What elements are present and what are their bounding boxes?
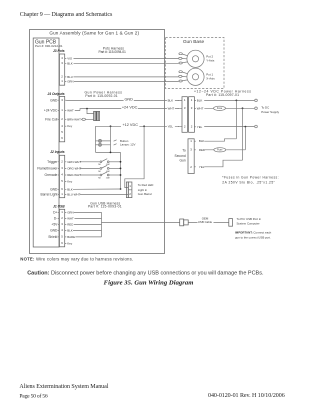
svg-text:BLK: BLK: [199, 139, 205, 143]
svg-text:2: 2: [61, 216, 63, 220]
svg-text:Part #: 115-0092-01: Part #: 115-0092-01: [85, 94, 117, 98]
svg-text:Part #: 115-0094-01: Part #: 115-0094-01: [98, 50, 126, 54]
svg-text:Shield: Shield: [48, 235, 57, 239]
svg-text:Fuse: Fuse: [217, 149, 223, 152]
svg-text:NO: NO: [98, 171, 101, 173]
svg-text:040-0120-01 Rev. H 10/10/200: 040-0120-01 Rev. H 10/10/2006: [208, 393, 285, 399]
svg-text:BLK: BLK: [67, 187, 73, 191]
svg-text:+5V: +5V: [51, 223, 58, 227]
svg-text:To PC/ USB Port in: To PC/ USB Port in: [237, 217, 262, 221]
svg-text:YEL: YEL: [197, 125, 203, 129]
svg-text:BRN-WHT: BRN-WHT: [67, 117, 81, 121]
svg-text:Power Supply: Power Supply: [261, 110, 279, 114]
svg-text:RED: RED: [67, 222, 73, 226]
svg-text:ORG-WHT: ORG-WHT: [67, 166, 81, 170]
svg-text:NO: NO: [98, 177, 101, 179]
svg-text:2: 2: [61, 117, 63, 121]
svg-text:4: 4: [61, 124, 63, 128]
svg-text:NOTE: Wire colors may vary du: NOTE: Wire colors may vary due to harnes…: [20, 256, 133, 261]
svg-text:BLK: BLK: [67, 61, 73, 65]
svg-text:GND: GND: [124, 98, 133, 102]
svg-text:Key: Key: [67, 124, 73, 128]
svg-text:2A 250V Slo Blo, .25"x1.25": 2A 250V Slo Blo, .25"x1.25": [222, 180, 275, 184]
svg-text:Second: Second: [175, 154, 186, 158]
svg-text:3: 3: [61, 98, 63, 102]
svg-text:Part #: 990-0212-01: Part #: 990-0212-01: [35, 44, 63, 48]
svg-text:Gun Barrel: Gun Barrel: [138, 192, 152, 196]
svg-text:D-: D-: [54, 217, 57, 221]
svg-text:Key: Key: [67, 242, 73, 246]
svg-text:Part #: 115-0097-01: Part #: 115-0097-01: [206, 93, 239, 97]
svg-text:BLU-WHT: BLU-WHT: [67, 193, 80, 197]
svg-text:2: 2: [61, 75, 63, 79]
svg-text:3: 3: [61, 166, 63, 170]
svg-text:BLK: BLK: [197, 98, 203, 102]
svg-text:2: 2: [191, 124, 193, 128]
svg-text:RED: RED: [199, 148, 205, 152]
svg-text:X-Axis: X-Axis: [206, 77, 215, 81]
svg-text:Trigger: Trigger: [47, 160, 58, 164]
svg-text:J3 Pots: J3 Pots: [53, 49, 65, 53]
svg-text:*Fuses in Gun Power Harness:: *Fuses in Gun Power Harness:: [222, 175, 278, 179]
svg-text:1: 1: [129, 184, 131, 188]
svg-text:BLK: BLK: [67, 228, 73, 232]
svg-text:4: 4: [61, 173, 63, 177]
svg-text:IMPORTANT: Connect each: IMPORTANT: Connect each: [235, 231, 272, 235]
svg-text:5: 5: [61, 235, 63, 239]
svg-text:4: 4: [61, 56, 63, 60]
svg-text:2: 2: [190, 165, 192, 169]
svg-text:1: 1: [191, 98, 193, 102]
svg-text:1: 1: [61, 108, 63, 112]
svg-text:1: 1: [61, 79, 63, 83]
svg-text:2: 2: [129, 192, 131, 196]
svg-text:WHT: WHT: [67, 109, 74, 113]
svg-text:GRN: GRN: [67, 80, 73, 84]
svg-text:GND: GND: [50, 187, 58, 191]
svg-text:1: 1: [61, 210, 63, 214]
svg-text:Fuse: Fuse: [217, 107, 223, 110]
svg-text:To Red LED: To Red LED: [138, 183, 154, 187]
svg-text:Lamps: 12V: Lamps: 12V: [120, 143, 135, 147]
svg-text:6: 6: [61, 241, 63, 245]
svg-text:3: 3: [191, 106, 193, 110]
svg-text:Barrel Light: Barrel Light: [41, 193, 58, 197]
svg-text:4: 4: [61, 228, 63, 232]
svg-text:Key: Key: [67, 179, 73, 183]
svg-text:Caution: Disconnect power bef: Caution: Disconnect power before changin…: [27, 270, 264, 276]
svg-text:Flamethrower: Flamethrower: [37, 167, 58, 171]
svg-text:Fire Coil: Fire Coil: [45, 117, 58, 121]
svg-text:GRN-WHT: GRN-WHT: [67, 160, 81, 164]
svg-text:YEL: YEL: [168, 125, 174, 129]
svg-text:WHT: WHT: [168, 107, 175, 111]
svg-text:NO: NO: [98, 164, 101, 166]
svg-text:To DC: To DC: [261, 105, 269, 109]
svg-text:J2 Inputs: J2 Inputs: [50, 150, 65, 154]
svg-text:3: 3: [190, 148, 192, 152]
svg-text:2: 2: [184, 124, 186, 128]
svg-text:Grenade: Grenade: [45, 173, 58, 177]
svg-text:Gun: Gun: [179, 158, 185, 162]
svg-text:Chapter 9 — Diagrams and Sch: Chapter 9 — Diagrams and Schematics: [20, 12, 113, 18]
svg-text:+24 VDC: +24 VDC: [122, 106, 138, 110]
svg-text:Page 50 of 56: Page 50 of 56: [19, 392, 48, 399]
svg-text:Gun Assembly (Same for Gun 1 &: Gun Assembly (Same for Gun 1 & Gun 2): [49, 30, 139, 35]
svg-text:WHT: WHT: [67, 216, 74, 220]
svg-text:USB Cable: USB Cable: [198, 220, 213, 224]
svg-text:10M: 10M: [106, 171, 110, 173]
svg-text:To: To: [182, 148, 186, 152]
svg-text:Aliens Extermination System Ma: Aliens Extermination System Manual: [19, 384, 108, 390]
svg-text:Part #: 115-0093-01: Part #: 115-0093-01: [88, 205, 122, 209]
svg-text:+24 VDC: +24 VDC: [44, 109, 58, 113]
svg-text:10M: 10M: [106, 164, 110, 166]
svg-text:Y-Axis: Y-Axis: [206, 59, 215, 63]
svg-text:10M: 10M: [106, 177, 110, 179]
svg-text:D+: D+: [53, 211, 57, 215]
svg-text:Gun Base: Gun Base: [183, 39, 205, 45]
svg-text:6: 6: [61, 136, 63, 140]
svg-text:GND: GND: [50, 98, 58, 102]
svg-text:J4 Outputs: J4 Outputs: [47, 92, 64, 96]
svg-text:gun to the correct USB port.: gun to the correct USB port.: [235, 235, 271, 239]
svg-text:VIO: VIO: [67, 57, 73, 61]
svg-text:BARE: BARE: [67, 235, 75, 239]
svg-text:+12 VDC: +12 VDC: [122, 123, 138, 127]
svg-text:5: 5: [61, 179, 63, 183]
svg-text:3: 3: [61, 222, 63, 226]
svg-text:YEL: YEL: [199, 165, 205, 169]
svg-text:System Computer: System Computer: [237, 222, 260, 226]
svg-text:3: 3: [184, 106, 186, 110]
svg-text:J1 USB: J1 USB: [53, 205, 65, 209]
svg-text:WHT: WHT: [197, 106, 204, 110]
svg-text:BLK: BLK: [168, 98, 174, 102]
svg-text:RED-WHT: RED-WHT: [67, 173, 81, 177]
svg-text:5: 5: [61, 130, 63, 134]
svg-text:BLU: BLU: [67, 75, 73, 79]
svg-text:6: 6: [61, 187, 63, 191]
svg-text:1: 1: [190, 139, 192, 143]
svg-text:3: 3: [61, 61, 63, 65]
svg-text:Figure 35. Gun Wiring Diagra: Figure 35. Gun Wiring Diagram: [104, 279, 194, 286]
svg-text:1: 1: [184, 98, 186, 102]
svg-text:1: 1: [61, 192, 63, 196]
svg-text:2: 2: [61, 159, 63, 163]
svg-text:GND: GND: [50, 229, 58, 233]
svg-text:GRN: GRN: [67, 210, 73, 214]
